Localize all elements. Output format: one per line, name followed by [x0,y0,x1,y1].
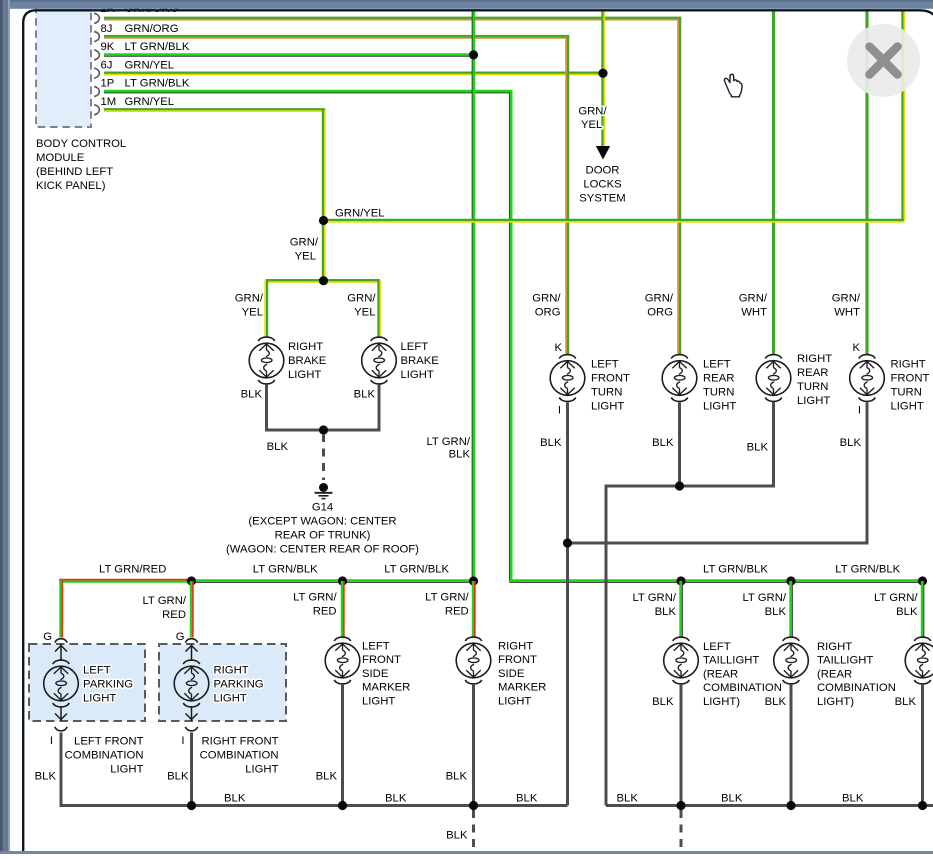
svg-text:BLK: BLK [354,389,376,401]
svg-text:LIGHT: LIGHT [214,693,247,705]
wire 6J GRN/YEL horizontal [104,73,603,75]
svg-text:YEL: YEL [354,306,375,318]
svg-text:GRN/: GRN/ [832,292,861,304]
wire 8J GRN/ORG horizontal [104,36,569,38]
junctions on rear BLK bus [676,801,927,810]
svg-text:SIDE: SIDE [498,668,525,680]
svg-text:COMBINATION: COMBINATION [703,682,782,694]
svg-text:BLK: BLK [385,793,407,805]
wire BLK rear ground bus y=805.5 [606,804,933,807]
wire BLK front ground bus y=805.5 [60,804,568,807]
caption LEFT FRONT COMBINATION LIGHT [65,736,144,776]
svg-text:LT GRN/BLK: LT GRN/BLK [125,41,190,53]
labels BLK under turn lights [540,437,562,449]
svg-text:LT GRN/BLK: LT GRN/BLK [384,564,449,576]
svg-text:YEL: YEL [295,251,316,263]
svg-text:I: I [558,405,561,417]
lamp LEFT PARKING LIGHT [44,644,79,721]
svg-text:FRONT: FRONT [891,373,930,385]
svg-text:LIGHT: LIGHT [288,369,321,381]
wire LT GRN/BLK vertical x=473.5 (9K net down to light-green bus) [472,11,474,581]
svg-text:LEFT: LEFT [83,665,111,677]
svg-text:(WAGON: CENTER REAR OF ROOF): (WAGON: CENTER REAR OF ROOF) [226,544,419,556]
label DOOR LOCKS SYSTEM [579,165,625,205]
labels BLK on buses [224,793,864,805]
svg-text:KICK PANEL): KICK PANEL) [36,180,106,192]
svg-text:LEFT: LEFT [591,359,619,371]
mouse hand cursor [724,74,742,97]
label LEFT PARKING LIGHT [83,665,133,705]
wire GRN/WHT vertical x=773.5 (to right rear turn light) [772,11,775,355]
svg-text:LIGHT: LIGHT [591,401,624,413]
wire BLK left taillight down x=681 [680,685,683,806]
label BLK left brake [354,389,376,401]
label GRN/ YEL left branch [235,292,264,318]
svg-text:MARKER: MARKER [362,682,410,694]
svg-text:FRONT: FRONT [498,654,537,666]
svg-text:BRAKE: BRAKE [401,355,440,367]
lamp RIGHT REAR TURN LIGHT [756,355,791,402]
junction BLK at (567.5,543) [563,538,572,547]
svg-text:RIGHT: RIGHT [214,665,249,677]
svg-text:YEL: YEL [242,306,263,318]
label LEFT BRAKE LIGHT [401,341,440,381]
svg-text:BLK: BLK [765,606,787,618]
svg-text:LT GRN/BLK: LT GRN/BLK [253,564,318,576]
svg-text:LT GRN/BLK: LT GRN/BLK [703,564,768,576]
bottom chrome strip [0,851,933,854]
svg-text:(REAR: (REAR [703,668,738,680]
svg-text:I: I [858,405,861,417]
wire LT GRN/BLK bus segment x=191.5..473.5 [192,581,474,583]
wire GRN/YEL vertical x=323.5 (1M net down to brake split) [323,110,325,282]
svg-text:BODY CONTROL: BODY CONTROL [36,138,126,150]
wire BLK right front turn light down x=867 then left y=543 [568,402,869,543]
svg-text:GRN/: GRN/ [290,237,319,249]
junction 6J GRN/YEL at (603,73.2) [598,69,607,78]
svg-text:BLK: BLK [316,771,338,783]
svg-text:TURN: TURN [797,381,828,393]
label GRN/YEL beside door-locks wire [578,106,607,132]
svg-text:BLK: BLK [652,696,674,708]
wire 2R GRN/ORG horizontal [104,18,681,20]
wire GRN/YEL split horizontal y=280.7 [266,280,380,282]
svg-text:ORG: ORG [535,306,561,318]
svg-text:FRONT: FRONT [591,373,630,385]
svg-text:ORG: ORG [647,306,673,318]
svg-text:GRN/: GRN/ [578,106,607,118]
svg-text:REAR OF TRUNK): REAR OF TRUNK) [275,530,371,542]
svg-text:DOOR: DOOR [586,165,620,177]
junction BLK at (323.5,430) [319,425,328,434]
svg-text:(BEHIND LEFT: (BEHIND LEFT [36,166,113,178]
label LT GRN/ BLK beside x=473.5 vertical [426,436,470,461]
svg-text:SIDE: SIDE [362,668,389,680]
svg-text:RIGHT: RIGHT [817,641,852,653]
svg-text:GRN/: GRN/ [347,292,376,304]
wire BLK join horizontal y=430 [265,429,381,432]
svg-text:LIGHT: LIGHT [83,693,116,705]
body control module caption [36,138,126,192]
BCM pin 6J connector arc [94,68,99,78]
bus junctions [187,576,927,585]
label LEFT FRONT TURN LIGHT [591,359,630,413]
BCM pin 2R connector arc [94,13,99,23]
svg-text:LOCKS: LOCKS [583,179,622,191]
pin G socket of RIGHT parking light [185,639,197,643]
wire BLK right taillight down x=791 [790,685,793,806]
BCM pin 1P connector arc [94,86,99,96]
svg-text:RED: RED [162,609,186,621]
svg-text:GRN/: GRN/ [532,292,561,304]
svg-text:LIGHT: LIGHT [245,764,278,776]
svg-text:GRN/: GRN/ [645,292,674,304]
svg-text:(REAR: (REAR [817,668,852,680]
svg-text:9K: 9K [101,41,115,53]
svg-text:LEFT: LEFT [401,341,429,353]
wire BLK right front side marker down x=473.5 [472,685,475,806]
pin I socket of RIGHT parking light [185,727,197,731]
wire LT GRN/RED drop to right parking light G [191,581,193,638]
pin 6J label [101,59,175,71]
label RIGHT TAILLIGHT [817,641,896,708]
svg-text:LT GRN/BLK: LT GRN/BLK [125,78,190,90]
wire GRN/YEL vertical x=903 (from top, joins GRN/YEL bus) [903,11,905,221]
label RIGHT PARKING LIGHT [214,665,264,705]
wire GRN/YEL vertical x=603 (6J net, to door locks arrow) [603,11,605,146]
lamp RIGHT FRONT SIDE MARKER LIGHT [456,637,491,684]
LEFT PARKING LIGHT dashed combination-light box [29,644,145,721]
pin 9K label [101,41,190,53]
svg-text:SYSTEM: SYSTEM [579,193,625,205]
svg-text:BLK: BLK [896,606,918,618]
svg-text:REAR: REAR [703,373,734,385]
label LT GRN/ BLK (x=922.5 drop) [874,592,918,618]
label BLK at dashed bottom wire [446,830,468,842]
svg-text:I: I [181,735,184,747]
BCM pin 9K connector arc [94,50,99,60]
svg-text:1M: 1M [101,96,117,108]
svg-text:G: G [43,631,52,643]
label LT GRN/ BLK (x=681 drop) [632,592,676,618]
svg-text:LT GRN/: LT GRN/ [632,592,676,604]
svg-text:GRN/ORG: GRN/ORG [125,23,179,35]
wire GRN/ORG vertical x=679.5 (2R net down to left rear turn light) [678,18,680,355]
svg-text:GRN/: GRN/ [235,292,264,304]
label LEFT TAILLIGHT [703,641,782,708]
svg-text:COMBINATION: COMBINATION [65,750,144,762]
lamp LEFT FRONT SIDE MARKER LIGHT [325,637,360,684]
svg-text:LT GRN/: LT GRN/ [293,592,337,604]
lamp RIGHT TAILLIGHT (REAR COMBINATION LIGHT) [774,637,809,684]
svg-text:LEFT FRONT: LEFT FRONT [74,736,144,748]
svg-text:BLK: BLK [617,793,639,805]
label LT GRN/ RED (x=473.5 drop) [425,592,469,618]
svg-text:BRAKE: BRAKE [288,355,327,367]
svg-text:GRN/YEL: GRN/YEL [125,96,175,108]
label LEFT FRONT SIDE MARKER LIGHT [362,641,410,708]
top chrome strip [0,0,933,9]
ground G14 symbol [315,483,333,499]
svg-text:(EXCEPT WAGON: CENTER: (EXCEPT WAGON: CENTER [248,516,396,528]
svg-text:YEL: YEL [581,119,602,131]
svg-text:BLK: BLK [895,696,917,708]
wire BLK dashed to ground [322,434,325,480]
svg-text:REAR: REAR [797,367,828,379]
svg-text:BLK: BLK [842,793,864,805]
BCM pin 8J connector arc [94,32,99,42]
svg-text:LIGHT: LIGHT [703,401,736,413]
wire BLK right rear turn light down x=773.5 then left y=486 [605,402,776,486]
svg-text:MARKER: MARKER [498,682,546,694]
svg-text:8J: 8J [101,23,113,35]
lamp RIGHT FRONT TURN LIGHT [850,355,885,402]
junction BLK at (679.5,486) [675,481,684,490]
pin 1M label [101,96,175,108]
svg-text:LIGHT: LIGHT [362,695,395,707]
label BLK at dashed ground wire [267,441,289,453]
svg-text:LIGHT: LIGHT [110,764,143,776]
wire GRN/YEL vertical to left brake light [379,281,381,338]
left chrome strip [0,0,22,854]
svg-text:BLK: BLK [167,771,189,783]
svg-text:LEFT: LEFT [703,641,731,653]
lamp RIGHT PARKING LIGHT [174,644,209,721]
svg-text:RIGHT: RIGHT [288,341,323,353]
wire BLK right parking light down x=191.5 [190,733,193,806]
pin letters K / I at front turn lights [554,342,562,417]
RIGHT PARKING LIGHT dashed combination-light box [159,644,286,721]
svg-text:BLK: BLK [446,830,468,842]
svg-text:G14: G14 [312,502,333,514]
wire BLK below right brake light [265,385,268,430]
svg-text:LT GRN/RED: LT GRN/RED [99,564,166,576]
pin G socket of LEFT parking light [55,639,67,643]
label LT GRN/ RED under bus (x=191.5 drop) [142,595,186,621]
svg-text:I: I [50,735,53,747]
lamp LEFT BRAKE LIGHT [362,337,397,384]
svg-text:1P: 1P [101,78,115,90]
junction 9K LT GRN/BLK at (473.5,54.9) [469,50,478,59]
svg-text:GRN/YEL: GRN/YEL [335,208,385,220]
label RIGHT REAR TURN LIGHT [797,353,832,407]
svg-text:BLK: BLK [765,696,787,708]
svg-text:MODULE: MODULE [36,152,85,164]
svg-text:PARKING: PARKING [214,679,264,691]
svg-text:BLK: BLK [652,437,674,449]
label G14 and location note [226,502,419,556]
svg-text:RED: RED [313,606,337,618]
svg-text:COMBINATION: COMBINATION [817,682,896,694]
wire BLK vertical x=606 down to rear bus [605,486,608,806]
BCM pin 1M connector arc [94,105,99,115]
labels I pins [50,735,185,747]
svg-text:BLK: BLK [721,793,743,805]
pin 2R label [101,3,179,15]
wire BLK left front side marker down x=342.5 [341,685,344,806]
wire BLK below left brake light [378,385,381,430]
svg-text:BLK: BLK [267,441,289,453]
svg-text:TAILLIGHT: TAILLIGHT [703,655,759,667]
arrow to DOOR LOCKS SYSTEM [596,146,610,160]
pin I socket of LEFT parking light [55,727,67,731]
svg-text:LIGHT: LIGHT [891,401,924,413]
wire LT GRN/BLK drop to right taillight [791,581,793,638]
label GRN/ YEL above brake split [290,237,319,263]
svg-text:LT GRN/: LT GRN/ [742,592,786,604]
caption RIGHT FRONT COMBINATION LIGHT [200,736,279,776]
svg-text:TURN: TURN [703,387,734,399]
wire LT GRN/RED drop to left parking light G [61,581,63,638]
svg-text:TURN: TURN [891,387,922,399]
label RIGHT FRONT SIDE MARKER LIGHT [498,641,546,708]
svg-text:RED: RED [445,606,469,618]
pin 8J label [101,23,179,35]
svg-text:WHT: WHT [741,306,767,318]
labels G pins [43,631,184,643]
close (X) button overlay [847,24,920,97]
wire BLK left rear turn light down x=679.5 [678,402,681,486]
label GRN/ YEL right branch [347,292,376,318]
label GRN/YEL on bus [335,208,385,220]
wire LT GRN/BLK drop to third taillight [922,581,924,638]
lamp RIGHT BRAKE LIGHT [249,337,284,384]
wire GRN/ORG vertical x=567.5 (8J net down to left front turn light) [566,37,568,356]
svg-text:GRN/YEL: GRN/YEL [125,59,175,71]
label LEFT REAR TURN LIGHT [703,359,736,413]
wire LT GRN/RED drop to left front side marker [342,581,344,638]
svg-text:LT GRN/: LT GRN/ [142,595,186,607]
wire 1P LT GRN/BLK horizontal [104,91,513,93]
svg-text:LEFT: LEFT [703,359,731,371]
svg-text:BLK: BLK [840,437,862,449]
label RIGHT FRONT TURN LIGHT [891,359,930,413]
svg-text:RIGHT: RIGHT [797,353,832,365]
bus labels LT GRN/RED + LT GRN/BLK [99,564,901,576]
svg-text:BLK: BLK [655,606,677,618]
wire 1M GRN/YEL horizontal [104,110,325,112]
svg-text:BLK: BLK [35,771,57,783]
wire GRN/WHT vertical x=867 (to right front turn light) [865,11,868,355]
wire LT GRN/BLK vertical x=510.8 (1P net down to taillight bus) [509,92,511,582]
svg-text:BLK: BLK [449,449,471,461]
svg-text:WHT: WHT [834,306,860,318]
wire GRN/YEL horizontal bus y=220.5 [324,220,904,222]
body control module U1 (dashed connector box) [36,0,91,127]
svg-text:RIGHT: RIGHT [891,359,926,371]
wire LT GRN/RED bus segment x=60.5..191.5 y=581 [59,580,191,582]
svg-text:BLK: BLK [747,442,769,454]
svg-text:FRONT: FRONT [362,654,401,666]
lamp LEFT REAR TURN LIGHT [662,355,697,402]
svg-text:LIGHT): LIGHT) [817,696,854,708]
label RIGHT BRAKE LIGHT [288,341,327,381]
wire BLK dashed below front bus [472,810,475,854]
svg-text:BLK: BLK [224,793,246,805]
svg-text:BLK: BLK [241,389,263,401]
svg-text:LT GRN/BLK: LT GRN/BLK [835,564,900,576]
svg-text:LT GRN/: LT GRN/ [426,436,470,448]
wire LT GRN/BLK bus right segment x=510.8..922.5 [510,581,923,583]
svg-text:LT GRN/: LT GRN/ [425,592,469,604]
lamp third taillight (clipped at right edge) [905,637,933,684]
svg-text:LEFT: LEFT [362,641,390,653]
label LT GRN/ BLK (x=791 drop) [742,592,786,618]
wire 9K LT GRN/BLK horizontal [104,55,474,57]
svg-text:LIGHT: LIGHT [401,369,434,381]
svg-text:TAILLIGHT: TAILLIGHT [817,655,873,667]
svg-text:GRN/: GRN/ [739,292,768,304]
svg-text:LIGHT): LIGHT) [703,696,740,708]
svg-text:PARKING: PARKING [83,679,133,691]
svg-text:BLK: BLK [516,793,538,805]
svg-text:RIGHT: RIGHT [498,641,533,653]
junctions on front BLK bus [187,801,478,810]
wire LT GRN/BLK drop to left taillight [681,581,683,638]
svg-text:LIGHT: LIGHT [498,695,531,707]
wire GRN/YEL vertical to right brake light [265,281,267,338]
svg-text:6J: 6J [101,59,113,71]
label LT GRN/ RED (x=342.5 drop) [293,592,337,618]
lamp LEFT TAILLIGHT (REAR COMBINATION LIGHT) [664,637,699,684]
svg-text:K: K [852,342,860,354]
labels GRN/ORG GRN/WHT above turn lights [532,292,561,318]
svg-text:G: G [176,631,185,643]
labels BLK at lamp returns [35,771,57,783]
svg-text:BLK: BLK [540,437,562,449]
wire LT GRN/RED drop to right front side marker [473,581,475,638]
svg-text:BLK: BLK [446,771,468,783]
pin 1P label [101,78,190,90]
svg-text:COMBINATION: COMBINATION [200,750,279,762]
wire BLK dashed below rear bus [680,810,683,854]
wire BLK left parking light down x=61 [60,733,63,806]
lamp LEFT FRONT TURN LIGHT [550,355,585,402]
junction GRN/YEL at (323.5,220.5) [319,216,328,225]
svg-text:LT GRN/: LT GRN/ [874,592,918,604]
wire BLK left front turn light down x=567.5 [566,402,569,805]
svg-text:K: K [554,342,562,354]
wire BLK third taillight down x=922.5 [921,685,924,806]
svg-text:TURN: TURN [591,387,622,399]
label BLK right brake [241,389,263,401]
svg-text:RIGHT FRONT: RIGHT FRONT [202,736,279,748]
svg-text:LIGHT: LIGHT [797,395,830,407]
